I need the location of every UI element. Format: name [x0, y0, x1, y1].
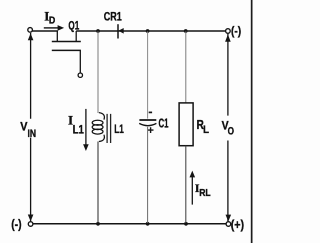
arrow down above bottom-left terminal — [28, 215, 34, 222]
inductor core bars — [107, 114, 111, 143]
wire C1 upper branch — [147, 32, 149, 119]
transistor Q1 — [52, 31, 83, 77]
svg-text:D: D — [49, 16, 55, 27]
bottom wire — [33, 223, 226, 225]
wire C1 lower branch — [147, 127, 149, 223]
wire RL lower branch — [185, 146, 187, 223]
terminal top-right — [226, 29, 231, 34]
inductor L1 — [92, 113, 104, 142]
plus mark — [148, 127, 154, 133]
svg-text:L1: L1 — [114, 122, 124, 136]
svg-text:IN: IN — [28, 128, 37, 140]
left rail — [30, 33, 32, 221]
resistor RL box — [179, 103, 193, 146]
terminal bottom-left — [28, 222, 33, 227]
node bottom C1 — [146, 222, 150, 226]
svg-text:L: L — [203, 124, 209, 136]
minus mark — [149, 111, 152, 113]
node top RL — [184, 29, 188, 33]
right rail — [227, 34, 229, 222]
diode CR1 — [117, 24, 119, 38]
wire top left segment — [32, 30, 58, 32]
svg-text:C1: C1 — [159, 116, 169, 131]
svg-text:(-): (-) — [11, 218, 21, 232]
node top L1 — [96, 29, 100, 33]
page border right edge — [251, 0, 253, 243]
arrow up below top-left terminal — [28, 33, 34, 40]
current arrow IRL — [191, 177, 193, 205]
svg-text:RL: RL — [199, 187, 211, 199]
capacitor C1 — [139, 119, 156, 121]
svg-text:O: O — [228, 125, 235, 137]
current arrow IL1 — [85, 109, 87, 145]
arrow down above bottom-right terminal — [226, 215, 232, 222]
wire L1 upper branch — [97, 32, 99, 114]
wire L1 lower branch — [97, 142, 99, 224]
svg-text:CR1: CR1 — [104, 10, 122, 24]
wire top right segment — [76, 30, 226, 32]
svg-text:(-): (-) — [231, 24, 241, 38]
node bottom L1 — [96, 222, 100, 226]
terminal bottom-right — [226, 222, 231, 227]
wire RL upper branch — [185, 32, 187, 103]
node top C1 — [146, 29, 150, 33]
current arrow ID — [44, 27, 58, 29]
arrow up below top-right terminal — [225, 34, 231, 41]
terminal top-left — [28, 28, 33, 33]
svg-text:(+): (+) — [231, 218, 244, 232]
node bottom RL — [184, 222, 188, 226]
svg-text:L1: L1 — [73, 123, 84, 137]
